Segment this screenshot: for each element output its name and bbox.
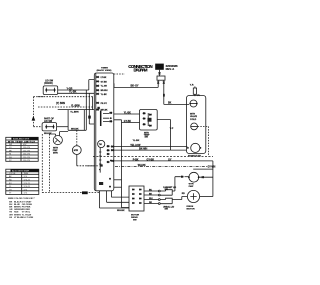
svg-text:17.4: 17.4	[24, 189, 28, 191]
svg-text:BK-GY: BK-GY	[131, 85, 139, 88]
svg-text:YELLOW: YELLOW	[130, 144, 141, 147]
water pump circle bottom right	[189, 172, 199, 182]
dashed console boundary left	[41, 134, 43, 193]
svg-text:YL-GR: YL-GR	[101, 86, 108, 88]
wire BK-GY timer to plug	[114, 86, 158, 88]
svg-text:RD: RD	[149, 202, 153, 204]
svg-text:WH-BK: WH-BK	[101, 110, 108, 112]
bottom connector box	[129, 186, 144, 211]
valve top circle	[190, 100, 197, 107]
svg-text:MOTOR: MOTOR	[187, 208, 196, 210]
dark pin left outside timer	[88, 116, 91, 119]
corner into right bus	[193, 168, 213, 170]
svg-text:YL-BK: YL-BK	[133, 140, 140, 142]
svg-text:BK: BK	[168, 103, 172, 105]
timer box	[94, 73, 114, 191]
dashed vertical x49.5	[49, 134, 51, 193]
svg-text:GY GRAY: GY GRAY	[22, 200, 32, 203]
svg-text:V-P: V-P	[170, 128, 174, 130]
svg-text:VALVE: VALVE	[190, 115, 198, 118]
mid band wire 4	[111, 161, 213, 197]
svg-text:(BACK VIEW): (BACK VIEW)	[97, 69, 112, 72]
svg-text:RD: RD	[182, 193, 186, 195]
svg-text:SW: SW	[9, 144, 12, 146]
pump circle 2	[72, 146, 81, 155]
svg-text:GY-BK: GY-BK	[147, 158, 155, 161]
svg-text:PMP: PMP	[189, 186, 194, 188]
mid band wire 2	[114, 149, 187, 151]
svg-text:17.4: 17.4	[24, 176, 28, 178]
svg-text:WIRE COLOR CODE KEY *: WIRE COLOR CODE KEY *	[8, 198, 35, 200]
svg-text:(DOOR): (DOOR)	[44, 83, 53, 85]
timer bottom small pin	[99, 169, 101, 171]
label (Y) BRN	[56, 102, 65, 105]
svg-text:LB: LB	[9, 217, 12, 219]
svg-text:CYCLE: CYCLE	[9, 173, 16, 175]
mid band wire 1	[114, 146, 188, 148]
wire to bleach circle	[172, 177, 180, 191]
temp sw wire to right	[157, 120, 170, 151]
dashes near timer top right	[114, 73, 125, 75]
lid switch label B	[44, 118, 55, 124]
wire from box B	[57, 126, 69, 128]
svg-text:WH: WH	[149, 198, 153, 200]
timer dark contact pin	[97, 107, 99, 109]
svg-text:(Y) BRN: (Y) BRN	[56, 102, 65, 105]
wire row 2	[58, 92, 95, 94]
plug right lead	[163, 80, 165, 104]
timer left pin column	[96, 76, 99, 111]
connector label	[131, 214, 140, 221]
timer bottom pins	[99, 182, 103, 185]
mid band wire 5 dash-dot	[115, 166, 208, 168]
inner rect region	[68, 110, 86, 131]
svg-text:BK-WH: BK-WH	[139, 148, 148, 151]
svg-text:PK-GY: PK-GY	[101, 103, 108, 105]
timer pin labels	[101, 77, 108, 112]
plug body rect	[157, 76, 165, 80]
svg-text:GY-WH: GY-WH	[208, 166, 216, 168]
svg-text:Y-R: Y-R	[190, 84, 194, 86]
dashes near timer bottom left	[87, 165, 94, 167]
svg-text:YL-BK: YL-BK	[69, 91, 77, 94]
timer right contacts upper	[103, 112, 112, 123]
svg-text:LT-BK: LT-BK	[101, 77, 107, 79]
table 1	[6, 137, 38, 161]
lid switch label A	[44, 80, 54, 85]
valve mid circle	[191, 123, 198, 130]
water valve box	[187, 96, 206, 154]
dashed row	[38, 96, 94, 98]
svg-text:150-170: 150-170	[23, 150, 30, 152]
wire from box A to timer	[58, 80, 95, 90]
svg-text:BU: BU	[149, 190, 153, 192]
title CONNECTION DIAGRAM	[128, 64, 153, 73]
svg-text:YL: YL	[9, 186, 11, 188]
switch labels	[163, 186, 177, 211]
svg-text:150-170: 150-170	[23, 157, 30, 159]
svg-text:MTR: MTR	[53, 152, 58, 154]
black tag on boundary	[82, 191, 88, 194]
valve mid wire right	[198, 126, 209, 156]
svg-text:SW: SW	[165, 209, 168, 211]
svg-text:MTR: MTR	[74, 150, 79, 152]
water temp switch box	[140, 110, 158, 131]
mid band wire 3 dashed	[93, 155, 213, 157]
svg-text:P-BK: P-BK	[133, 158, 139, 161]
timer bold contact bar	[100, 111, 102, 127]
valve bottom circle	[191, 143, 200, 152]
vertical wires center going down	[86, 90, 94, 130]
wire right lead to valve	[164, 103, 189, 105]
plug drop line	[159, 70, 161, 76]
svg-text:WH-BK: WH-BK	[117, 210, 125, 212]
table 2	[6, 169, 39, 194]
svg-text:WTR: WTR	[190, 114, 195, 116]
switch 2	[158, 199, 160, 201]
svg-text:150-170: 150-170	[23, 154, 30, 156]
svg-text:WH-BK: WH-BK	[71, 129, 79, 131]
timer bottom wires down to connector	[100, 191, 130, 208]
svg-text:COLD: COLD	[190, 119, 197, 121]
temp switch label	[144, 132, 150, 138]
svg-text:TIME: TIME	[24, 173, 29, 175]
part number text	[166, 64, 178, 71]
fuse component	[193, 88, 196, 94]
svg-text:TAN: TAN	[14, 211, 19, 214]
svg-text:17.4-21: 17.4-21	[24, 180, 30, 182]
svg-text:WH-BK: WH-BK	[138, 165, 146, 167]
svg-text:YL-BK: YL-BK	[124, 112, 131, 114]
svg-text:REV. A: REV. A	[166, 67, 175, 71]
svg-text:LG LT GRN: LG LT GRN	[22, 217, 34, 219]
svg-text:GY: GY	[168, 158, 172, 161]
lid switch box B	[42, 123, 57, 131]
svg-text:TM: TM	[99, 144, 102, 146]
svg-text:BK: BK	[149, 194, 153, 196]
svg-text:DIAGRAM: DIAGRAM	[134, 68, 148, 73]
timer inner contacts column	[99, 145, 112, 172]
svg-text:SW: SW	[145, 137, 148, 139]
noise filter label	[188, 156, 201, 158]
svg-text:17.4: 17.4	[24, 193, 28, 195]
svg-text:GY-BK: GY-BK	[124, 121, 132, 123]
lid switch box A	[43, 86, 58, 95]
drive motor circle	[187, 190, 199, 202]
timer bottom bold pin	[100, 164, 103, 166]
timer inner left line	[95, 73, 97, 190]
svg-text:YL-BRN: YL-BRN	[71, 105, 80, 107]
wire pump to bus	[199, 176, 213, 178]
svg-text:BR-WH: BR-WH	[101, 90, 108, 92]
svg-text:17.4-21: 17.4-21	[24, 183, 30, 185]
svg-text:GY-BK: GY-BK	[101, 81, 108, 83]
timer motor circle	[98, 140, 105, 147]
plug left lead	[157, 80, 159, 87]
water pump circle with legs	[53, 136, 62, 145]
connector wires to switches	[144, 191, 158, 204]
fuse label	[190, 84, 194, 86]
svg-text:YL-BK: YL-BK	[101, 94, 108, 96]
svg-text:YL-BRN: YL-BRN	[70, 112, 79, 114]
svg-text:150-170: 150-170	[23, 160, 30, 162]
temp sw wires to timer	[114, 113, 140, 115]
legend text block	[8, 198, 35, 219]
svg-text:BLACK: BLACK	[14, 200, 22, 203]
svg-text:150-170: 150-170	[23, 147, 30, 149]
svg-text:17.4-21: 17.4-21	[24, 186, 30, 188]
switch 1	[158, 190, 160, 192]
dashed mechanical link with arrow	[32, 97, 34, 128]
part number plate (black box)	[155, 64, 164, 70]
timer label	[97, 68, 112, 72]
wire switch2 to motor	[172, 197, 187, 200]
valve text	[190, 114, 198, 121]
